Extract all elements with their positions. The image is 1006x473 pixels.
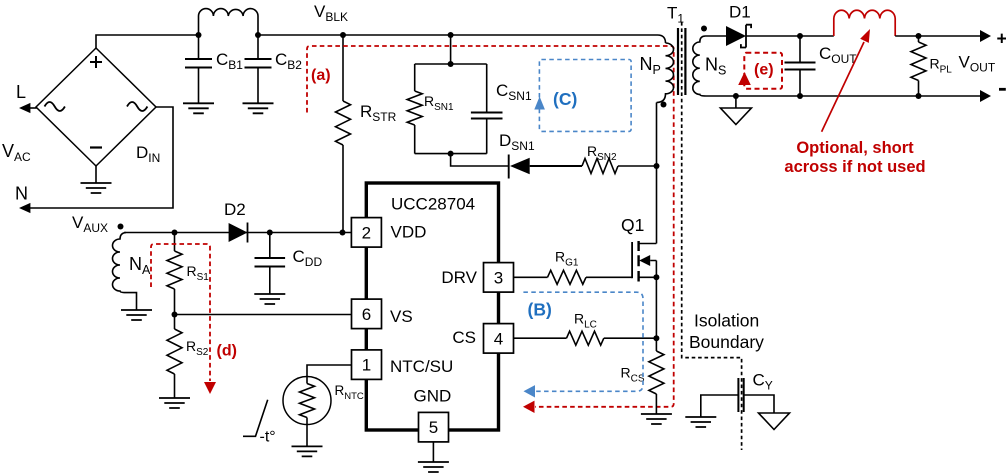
blue dashed box (C) [539,60,631,132]
wire bridge bottom to ground [95,166,97,183]
IC U1 UCC28704 body [366,183,498,430]
red annotation arrow [822,42,864,132]
wire R_SN2 to drain [618,165,657,167]
bridge AC symbol left [45,102,65,111]
svg-text:DRV: DRV [441,268,477,287]
svg-text:5: 5 [429,418,438,437]
svg-text:D1: D1 [729,3,751,22]
capacitor C_B2 [245,59,272,68]
bridge AC symbol right [127,102,147,111]
svg-text:3: 3 [494,268,503,287]
red dashed box (e) [744,53,782,89]
optional output inductor (red) [834,10,895,36]
wire snubber bottom rail [415,153,487,155]
wire R_STR top [342,35,344,101]
inductor input filter [199,9,259,35]
node RPL top [916,33,922,39]
capacitor C_DD [255,258,286,267]
resistor R_SN1 [407,91,422,125]
wire node CB1 [196,32,202,38]
svg-text:CS: CS [452,328,476,347]
capacitor C_OUT [785,63,816,70]
node snubber top [448,32,454,38]
phase dot N_P [661,102,667,108]
ground R_CS [641,414,672,424]
svg-text:Boundary: Boundary [689,332,764,352]
svg-text:N: N [15,184,28,204]
pin 2 VDD [351,218,381,248]
arrow N terminal [19,203,30,213]
isolation boundary dashed line [682,22,742,450]
wire L terminal [28,107,37,109]
svg-text:6: 6 [362,305,371,324]
svg-text:1: 1 [362,356,371,375]
wire R_SN1 leads [414,64,416,154]
svg-text:Q1: Q1 [621,215,644,235]
ground CY right (chassis) [759,413,790,430]
resistor R_S1 [167,251,182,289]
wire R_LC to node [604,337,657,339]
resistor R_PL leads [918,36,920,96]
node VS divider [172,312,178,318]
wire source to CS node [655,277,657,338]
wire R_S1 leads [174,233,176,315]
svg-text:(a): (a) [311,67,331,84]
svg-text:NTC/SU: NTC/SU [390,357,453,376]
wire secondary ground stem [735,96,737,108]
arrow loop (B) [524,385,536,397]
svg-text:D2: D2 [224,200,246,219]
node snubber rail top [448,61,454,67]
svg-text:UCC28704: UCC28704 [391,195,475,214]
winding N_S [693,36,706,96]
arrow L terminal [19,103,30,113]
ground C_B1 [183,103,214,113]
arrow loop (C) [534,97,545,110]
pin 6 VS [352,299,382,329]
wire primary drain [656,103,658,244]
wire GND pin to ground [432,442,434,462]
node snubber rail bottom [448,151,454,157]
transformer core [678,28,685,95]
red dashed loop (a) [307,46,674,407]
thermistor R_NTC element [300,384,315,418]
arrow loop (a) [523,401,535,413]
wire VS [175,314,352,316]
thermistor R_NTC circle [283,377,331,425]
svg-text:-t°: -t° [260,429,276,446]
resistor R_PL [911,42,926,81]
node VBLK [340,32,346,38]
ground R_NTC [292,446,323,456]
node RPL bottom [916,93,922,99]
svg-text:VDD: VDD [391,223,427,242]
ground secondary (chassis) [720,108,751,125]
svg-text:+: + [997,29,1006,49]
capacitor C_B2 lead [257,35,259,103]
node R_STR bottom [340,230,346,236]
capacitor C_OUT leads [799,36,801,96]
svg-text:Optional, short: Optional, short [796,139,914,157]
node drain snubber junction [654,163,660,169]
blue dashed loop (B) [523,292,643,391]
resistor R_STR [336,101,351,145]
wire pin1 to NTC [307,365,352,384]
ground C_B2 [243,103,274,113]
wire R_S2 leads [174,315,176,399]
node Q1 source [653,274,659,280]
resistor R_G1 [548,270,587,284]
ground IC GND [418,462,449,472]
svg-text:(C): (C) [553,89,577,109]
capacitor C_B1 lead [198,35,200,103]
ground C_DD [254,294,285,304]
bridge + polarity mark [90,56,102,68]
svg-text:4: 4 [494,329,503,348]
winding N_A [113,233,137,311]
capacitor C_B1 [185,59,212,68]
resistor R_LC [567,331,604,345]
svg-text:Isolation: Isolation [694,311,759,331]
bridge - polarity mark [90,146,102,148]
svg-text:(d): (d) [217,343,237,360]
node R_S1 top [172,230,178,236]
capacitor C_SN1 [471,113,503,119]
wire R_STR bottom [342,145,344,233]
resistor R_S2 [167,329,182,374]
transistor Q1 [631,242,633,278]
red dashed loop (d) [151,244,210,381]
svg-text:(B): (B) [528,300,552,320]
diode D_SN1 [509,155,582,179]
capacitor C_DD leads [269,233,271,295]
phase dot N_A [118,224,124,230]
wire inductor to RPL [895,35,981,37]
arrow output + [980,30,991,42]
arrow loop (e) [738,72,751,85]
wire CY left [701,395,739,417]
wire R_CS leads [655,338,657,414]
NTC temperature symbol [243,400,268,437]
ground CY left [685,417,716,427]
node CS [653,335,659,341]
label output - [999,88,1006,91]
arrow loop (d) [204,382,216,394]
node CB2 [255,32,261,38]
svg-text:GND: GND [414,387,452,406]
wire bridge top to rail [96,35,198,48]
node secondary ground [733,93,739,99]
svg-text:VS: VS [390,307,413,326]
wire CY right [744,395,774,413]
ground R_S2 [159,398,190,408]
ground bridge [81,183,112,193]
wire D1 to COUT node [746,35,834,37]
svg-text:2: 2 [362,223,371,242]
pin 3 DRV [484,263,514,293]
capacitor C_Y [738,378,743,412]
wire VDD rail [124,232,352,234]
diode D2 [229,223,248,242]
pin 4 CS [484,324,514,354]
wire VBLK rail [258,35,666,43]
pin 1 NTC/SU [352,350,382,380]
wire C_SN1 leads [486,64,488,154]
node C_DD [267,230,273,236]
pin 5 GND [419,412,449,442]
wire snubber feed [450,35,452,64]
ground N_A [121,310,152,320]
wire bridge right to N [28,107,173,208]
wire CS to R_LC [514,337,567,339]
winding N_P [657,43,674,103]
diode D1 [726,26,746,46]
wire secondary bottom rail [706,95,981,97]
wire R_G1 to gate [586,276,632,278]
svg-text:L: L [16,82,26,102]
wire NTC to ground [306,418,308,447]
resistor R_CS [649,351,664,394]
wire NS to D1 [706,35,727,37]
node COUT top [797,33,803,39]
phase dot N_S [701,26,707,32]
resistor R_SN2 [582,159,618,174]
wire DRV to R_G1 [514,276,548,278]
arrow output - [980,90,991,102]
node COUT bottom [797,93,803,99]
wire snubber top rail [415,63,487,65]
svg-text:(e): (e) [754,62,774,79]
bridge rectifier D_IN [36,48,156,166]
svg-text:across if not used: across if not used [784,158,925,176]
wire snubber to diode [451,154,508,166]
